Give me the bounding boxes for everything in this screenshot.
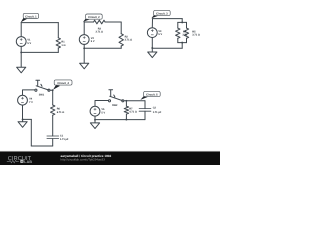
wire top bar C3 [178,21,187,23]
node junction SW2-R7 [125,100,127,102]
wire R7 top lead [125,101,127,106]
wire source bottom C5 [94,116,96,120]
svg-text:http://circuitlab.com/c/7pk294: http://circuitlab.com/c/7pk294aw33 [61,157,106,161]
node junction C1 [20,51,22,53]
switch SW1 [35,89,37,91]
wire right-bottom C1 [57,48,59,52]
wire source bottom C4 [22,105,24,119]
wire drop to bar C3 [181,19,183,23]
wire left branch bottom C3 [177,38,179,42]
svg-text:Circuit_3: Circuit_3 [156,12,168,15]
wire left-bottom C1 [20,46,22,52]
wire top C3 [153,18,183,20]
wire left riser C4 [30,119,32,146]
svg-text:3.71 Ω: 3.71 Ω [96,30,104,33]
svg-text:5 V: 5 V [101,111,105,114]
svg-text:Circuit_2: Circuit_2 [88,16,100,19]
CircuitLab logo bolt badge [20,160,23,163]
wire C1 bottom stub [52,139,54,146]
node junction C2 [83,47,85,49]
svg-text:7 V: 7 V [29,101,33,104]
svg-text:4.71 Ω: 4.71 Ω [129,111,137,114]
wire right-bottom C2 [120,46,122,48]
wire right drop C5 [144,101,146,109]
resistor R7 [124,106,128,114]
wire switch to node C4 [50,89,53,91]
wire left-bottom C3 [151,38,153,49]
label Circuit_3 pointer [151,15,158,19]
wire left-top C3 [151,19,153,28]
label Circuit_1 pointer [21,18,28,23]
svg-text:Circuit_1: Circuit_1 [25,15,37,18]
svg-text:3.71 Ω: 3.71 Ω [192,34,200,37]
resistor R5 [184,28,188,38]
voltage source V3 [147,28,157,38]
ground [148,52,157,58]
svg-text:SW2: SW2 [112,104,118,107]
wire bottom C2 [84,47,121,49]
svg-text:5 V: 5 V [91,40,95,43]
label Circuit_4 pointer [53,85,60,90]
resistor R4 [176,28,180,38]
voltage source V2 [79,35,89,45]
label Circuit_1 [23,13,38,18]
wire ground stem C1 [20,52,22,67]
wire top C1 loop [21,22,58,24]
label Circuit_2 [86,14,103,19]
wire right branch bottom C3 [186,38,188,42]
wire switch to node C5 [124,100,127,102]
wire R6 to C1 [52,115,54,136]
wire node to corner C5 [126,100,145,102]
svg-text:Circuit_4: Circuit_4 [57,82,69,85]
node junction R7 bottom [125,119,127,121]
voltage source V4 [18,95,28,105]
label Circuit_4 [54,80,72,85]
wire right-top C1 [57,23,59,38]
wire left branch top C3 [177,22,179,28]
node junction C3 [151,47,153,49]
capacitor C2 [139,109,151,112]
wire ground stem C3 [151,48,153,52]
wire top-left C2 [84,21,93,23]
wire right-top C2 [120,22,122,34]
wire left-bottom C2 [83,44,85,48]
wire top-right C2 [105,21,121,23]
node junction C5 [94,119,96,121]
wire R7 bottom lead [125,114,127,120]
svg-text:1 Ω: 1 Ω [61,44,65,47]
CircuitLab logo resistor glyph [7,160,19,162]
ground [90,123,99,129]
node top bar C3 [181,21,183,23]
footer watermark bar top fade [0,150,220,153]
wire drop from bar C3 [181,43,183,49]
svg-text:3.71: 3.71 [182,34,187,37]
svg-text:6.71 Ω: 6.71 Ω [57,111,65,114]
wire source top C4 [23,90,35,95]
label Circuit_2 pointer [83,18,90,22]
ground [18,122,27,128]
label Circuit_5 pointer [140,96,148,100]
svg-text:1.71 µF: 1.71 µF [153,111,162,114]
svg-text:SW1: SW1 [39,93,45,96]
wire bottom C5 [95,119,145,121]
resistor R2 [119,34,123,46]
wire right branch top C3 [186,22,188,28]
svg-text:Circuit_5: Circuit_5 [146,93,158,96]
wire ground stem C2 [83,48,85,63]
ground [17,67,26,73]
switch SW2 [108,100,110,102]
label Circuit_5 [144,91,161,96]
svg-text:LAB: LAB [24,160,32,164]
capacitor C1 [47,136,59,139]
resistor R1 [56,38,60,48]
wire bottom C1 [21,51,58,53]
svg-text:5 V: 5 V [27,42,31,45]
svg-text:2.71 Ω: 2.71 Ω [125,38,133,41]
ground [80,63,89,69]
voltage source V5 [90,106,100,116]
wire left-top C1 [20,23,22,37]
wire bottom bar C3 [178,42,187,44]
wire left-top C2 [83,22,85,35]
resistor R6 [51,105,55,115]
voltage source V1 [16,37,26,47]
label Circuit_3 [154,10,171,15]
wire to ground node C4 [23,118,32,120]
wire C2 bottom stub [144,111,146,119]
wire R6 top lead [52,90,54,105]
node junction SW1-R6 [52,89,54,91]
node junction C4 [22,118,24,120]
svg-text:5 V: 5 V [158,33,162,36]
wire ground stub C5 [94,120,96,123]
wire source top C5 [95,101,108,107]
resistor R3 [94,20,106,24]
wire bottom C3 [152,47,182,49]
svg-text:1.71 µF: 1.71 µF [60,138,69,141]
wire bottom C4 [31,145,52,147]
footer watermark bar [0,152,220,165]
node bottom bar C3 [181,42,183,44]
wire ground stub C4 [22,119,24,121]
